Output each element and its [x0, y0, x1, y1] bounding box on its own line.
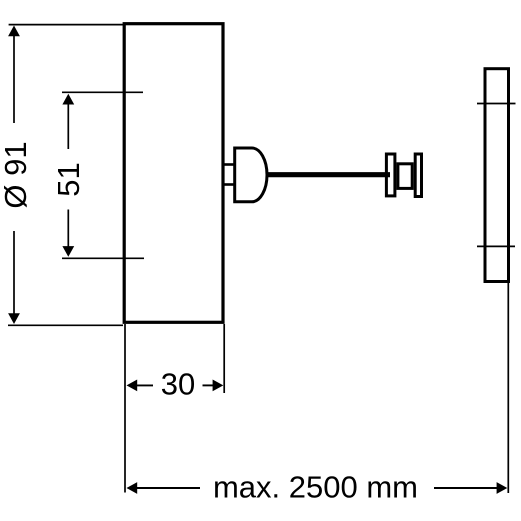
plug middle body [398, 164, 412, 189]
plug left bar [386, 154, 395, 196]
cable gland D-shape [235, 148, 267, 202]
extension line 51 lower [62, 257, 144, 259]
dimension line diameter 91 (lower segment) [13, 231, 15, 315]
connector neck upper line [223, 163, 236, 166]
main body rectangle (cylinder side view) [124, 24, 223, 323]
wall plate tick upper [477, 103, 516, 105]
dimension line max 2500 (right segment) [434, 487, 498, 489]
svg-text:Ø 91: Ø 91 [0, 141, 33, 208]
svg-text:51: 51 [51, 162, 86, 196]
arrowhead diameter 91 down [8, 313, 20, 324]
svg-text:30: 30 [161, 367, 195, 402]
arrowhead 51 down [62, 246, 74, 257]
arrowhead max 2500 right [497, 482, 508, 494]
svg-text:max. 2500 mm: max. 2500 mm [213, 469, 418, 504]
arrowhead max 2500 left [127, 482, 138, 494]
dimension line diameter 91 (upper segment) [13, 34, 15, 123]
wall plate [485, 69, 509, 282]
dimension line max 2500 (left segment) [136, 487, 200, 489]
extension line top (diameter 91, upper) [9, 24, 123, 26]
extension line plate right edge down [507, 283, 509, 493]
dimension line 51 (lower segment) [67, 210, 69, 248]
extension line 51 upper [62, 91, 143, 93]
cable [266, 172, 390, 177]
arrowhead 30 right [213, 380, 224, 392]
extension line bottom (diameter 91, lower) [8, 324, 123, 326]
connector neck lower line [223, 183, 236, 186]
arrowhead diameter 91 up [8, 26, 20, 37]
arrowhead 30 left [127, 380, 138, 392]
extension line body left edge down [124, 324, 126, 493]
arrowhead 51 up [62, 94, 74, 105]
wall plate tick lower [477, 245, 515, 247]
extension line body right edge down [223, 324, 225, 393]
plug right bar [415, 154, 421, 197]
dimension line 30 (right segment) [203, 384, 214, 386]
dimension line 30 (left segment) [137, 384, 154, 386]
dimension line 51 (upper segment) [67, 103, 69, 149]
